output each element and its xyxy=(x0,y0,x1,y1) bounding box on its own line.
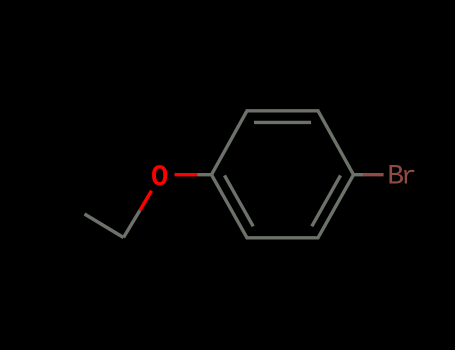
svg-text:r: r xyxy=(401,162,417,192)
svg-text:O: O xyxy=(151,162,168,193)
